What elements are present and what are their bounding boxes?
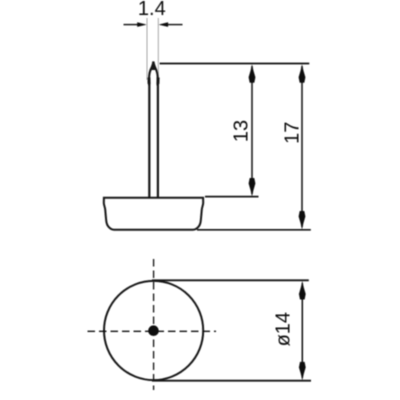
arrow down at 17 bottom [299, 211, 306, 230]
svg-text:13: 13 [230, 120, 252, 142]
svg-text:17: 17 [282, 122, 304, 144]
horizontal centerline [88, 330, 217, 332]
nail tip point (side view) [152, 61, 156, 70]
dimension line 13 [251, 66, 253, 194]
nail shaft right line [157, 84, 159, 197]
glide cap outline (side view) [104, 198, 203, 230]
dimension line diameter 14 [301, 283, 303, 378]
dimension leader left of 1.4 [124, 24, 140, 26]
extension line right of 1.4 [157, 18, 159, 80]
arrow up at 13 top [249, 64, 256, 83]
top reference line from nail tip [160, 63, 310, 65]
arrow pointing right at 1.4 left [137, 22, 147, 27]
nail shaft left line [148, 84, 150, 197]
bottom tangent extension line [152, 380, 311, 382]
nail tip right shoulder [156, 78, 159, 85]
arrow up at diameter top [299, 281, 306, 300]
extension line at 17 bottom [197, 229, 311, 231]
vertical centerline [153, 259, 155, 390]
glide cap circle (bottom view) [104, 281, 203, 380]
svg-text:1.4: 1.4 [138, 0, 166, 20]
nail tip left shoulder [147, 78, 150, 85]
arrow down at 13 bottom [249, 178, 256, 197]
nail tip right ogive [153, 62, 157, 86]
extension line left of 1.4 [146, 18, 148, 80]
nail point dot (bottom view) [148, 325, 159, 336]
arrow down at diameter bottom [299, 362, 306, 381]
nail tip left ogive [149, 62, 153, 86]
dimension line 17 [301, 66, 303, 227]
arrow pointing left at 1.4 right [158, 22, 168, 27]
dimension leader right of 1.4 [167, 24, 183, 26]
top tangent extension line [152, 279, 309, 281]
extension line at 13 bottom [205, 196, 259, 198]
svg-text:ø14: ø14 [273, 312, 295, 346]
arrow up at 17 top [299, 64, 306, 83]
